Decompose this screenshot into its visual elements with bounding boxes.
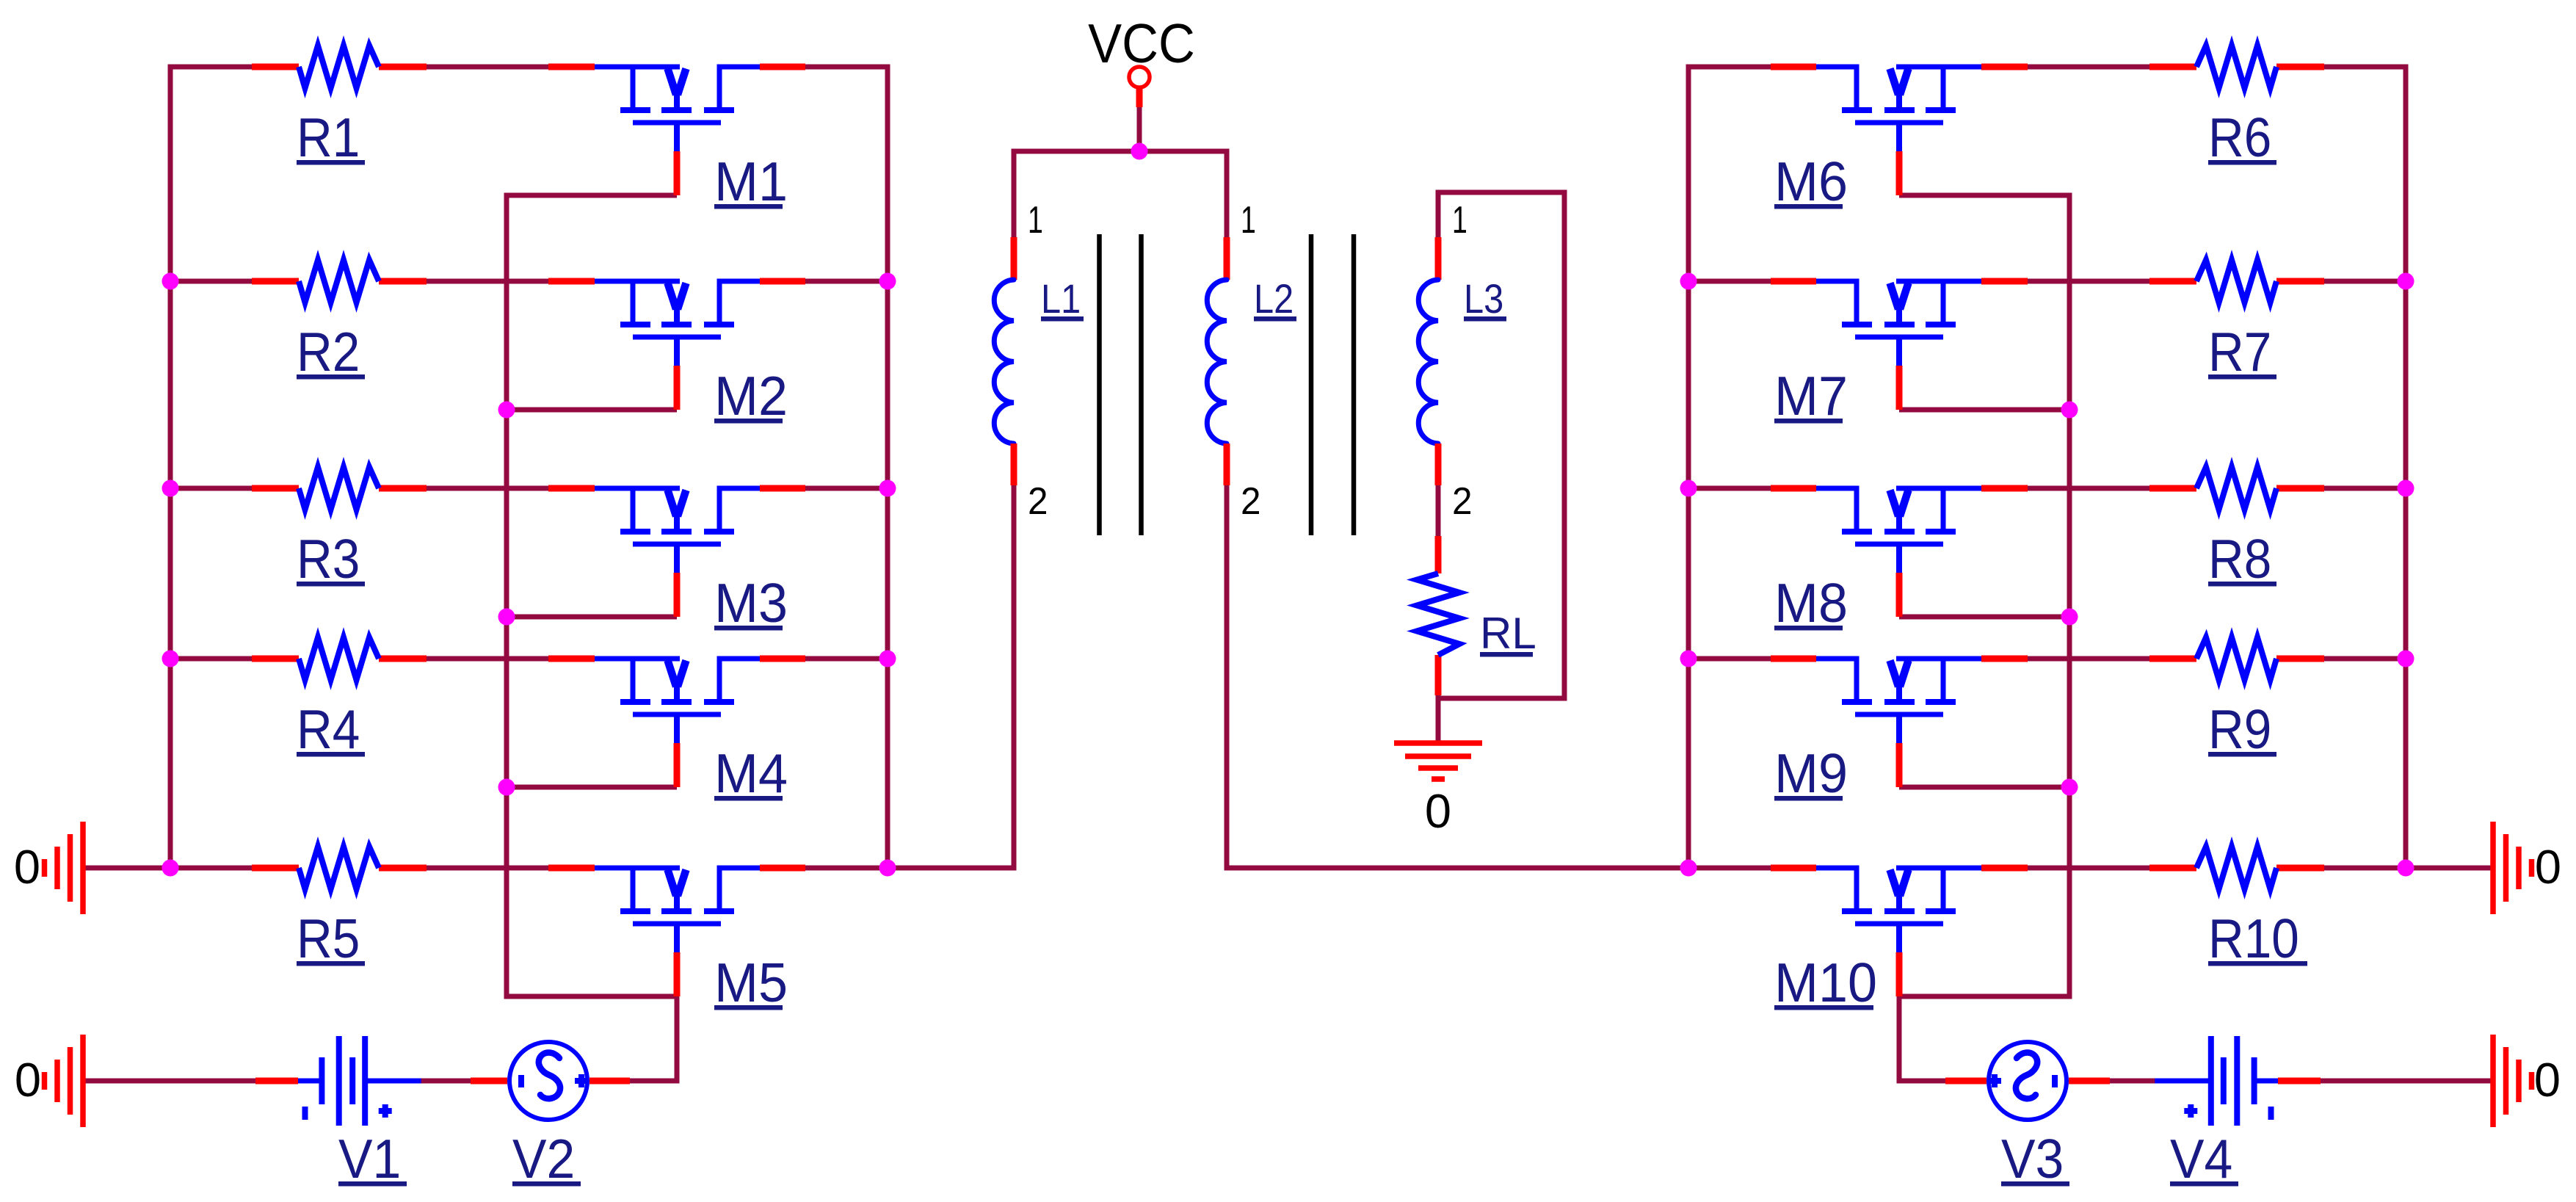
wire row2 left segments <box>168 279 890 284</box>
ground 0 label right row5 <box>2535 840 2561 894</box>
wire left ground to V1 <box>83 1079 255 1084</box>
junction (1209,897) <box>879 651 896 667</box>
junction (3277,897) <box>2398 651 2414 667</box>
svg-text:M3: M3 <box>714 572 788 634</box>
resistor R5 <box>252 847 427 889</box>
label V2 <box>512 1128 581 1190</box>
label L3 <box>1464 275 1506 322</box>
svg-text:0: 0 <box>2535 840 2561 894</box>
pin number 2 at x=1959 <box>1452 480 1473 523</box>
wire row5 right segments <box>1686 866 2409 871</box>
pin number 2 at x=1381 <box>1028 480 1048 523</box>
ground 0 label left row5 <box>14 840 40 894</box>
source V2 sine <box>471 1042 630 1120</box>
pin number 1 at x=1381 <box>1028 199 1043 242</box>
svg-text:1: 1 <box>1241 199 1256 242</box>
wire V2 riser to gate bus <box>630 996 677 1084</box>
ground 0 left row5 <box>45 822 84 914</box>
svg-text:R2: R2 <box>297 321 360 383</box>
junction (690,1072) <box>498 779 515 796</box>
label L1 <box>1041 275 1084 322</box>
node label VCC <box>1088 12 1195 74</box>
svg-text:2: 2 <box>1241 480 1261 523</box>
wire left ground to bus (row5) <box>83 866 170 871</box>
junction (3277,1182) <box>2398 860 2414 877</box>
label R5 <box>297 908 365 969</box>
ground 0 left Vrow <box>45 1035 84 1127</box>
source V4 battery <box>2155 1036 2321 1126</box>
svg-text:M7: M7 <box>1774 365 1848 427</box>
wire row4 left segments <box>168 656 890 662</box>
wire row3 left segments <box>168 486 890 491</box>
label R7 <box>2208 321 2276 383</box>
label R9 <box>2208 698 2276 760</box>
wire gate M6 <box>1899 193 2072 198</box>
wire gate M8 <box>1899 615 2072 620</box>
transformer core L1-L2 <box>1100 234 1142 535</box>
label R3 <box>297 528 365 590</box>
junction (3277,383) <box>2398 273 2414 290</box>
junction (1209,1182) <box>879 860 896 877</box>
transistor M6 <box>1771 67 2028 195</box>
wire L3 RL loop <box>1436 190 1565 699</box>
wire left gate bus <box>504 193 509 999</box>
wire L2 bottom to right output <box>1227 485 1691 868</box>
transformer core L2-L3 <box>1311 234 1354 535</box>
wire V1 to V2 <box>421 1079 471 1084</box>
transistor M10 <box>1771 868 2028 996</box>
svg-text:M5: M5 <box>714 952 788 1013</box>
junction (2819,1072) <box>2061 779 2078 796</box>
pin number 1 at x=1959 <box>1452 199 1467 242</box>
wire L1 bottom to output <box>885 485 1015 868</box>
wire L3 to RL <box>1436 485 1441 536</box>
label R10 <box>2208 908 2307 969</box>
transistor M3 <box>548 488 805 617</box>
wire V3 riser to gate junction <box>1899 996 1945 1084</box>
wire V4 to right ground <box>2321 1079 2491 1084</box>
wire V3 to V4 <box>2110 1079 2159 1084</box>
wire row5 left segments <box>168 866 890 871</box>
transistor M7 <box>1771 281 2028 410</box>
svg-text:V4: V4 <box>2170 1128 2232 1190</box>
ground 0 label below RL <box>1425 784 1451 838</box>
junction (232,897) <box>162 651 179 667</box>
wire VCC rail to L1 L2 <box>1014 151 1227 242</box>
ground 0 right Vrow <box>2493 1035 2532 1127</box>
svg-text:R7: R7 <box>2208 321 2271 383</box>
label M6 <box>1774 151 1848 212</box>
label M10 <box>1774 952 1877 1013</box>
svg-text:L2: L2 <box>1254 275 1294 322</box>
transistor M4 <box>548 659 805 787</box>
svg-text:0: 0 <box>2534 1053 2561 1107</box>
wire gate M1 <box>504 193 678 198</box>
wire row2 right segments <box>1686 279 2409 284</box>
label M5 <box>714 952 788 1013</box>
svg-text:0: 0 <box>14 840 40 894</box>
junction (1552,206) <box>1131 143 1148 160</box>
junction (2300,1182) <box>1680 860 1697 877</box>
junction (1209,383) <box>879 273 896 290</box>
wire row1 right segments <box>1686 65 2409 70</box>
wire gate M2 <box>504 408 678 413</box>
label V3 <box>2001 1128 2069 1190</box>
label R8 <box>2208 528 2276 590</box>
wire left output bus <box>885 65 890 871</box>
svg-text:V2: V2 <box>512 1128 575 1190</box>
wire row3 right segments <box>1686 486 2409 491</box>
ground 0 label left Vrow <box>15 1053 41 1107</box>
svg-text:0: 0 <box>15 1053 41 1107</box>
ground 0 below RL <box>1394 743 1482 779</box>
label R1 <box>297 106 365 168</box>
resistor R6 <box>2149 46 2324 88</box>
wire gate M10 <box>1899 994 2072 999</box>
junction (232,1182) <box>162 860 179 877</box>
resistor R9 <box>2149 637 2324 680</box>
resistor R1 <box>252 46 427 88</box>
svg-text:R10: R10 <box>2208 908 2299 969</box>
label M9 <box>1774 742 1848 804</box>
svg-text:L3: L3 <box>1464 275 1503 322</box>
svg-text:R4: R4 <box>297 698 360 760</box>
label L2 <box>1254 275 1296 322</box>
resistor R8 <box>2149 467 2324 510</box>
svg-text:M10: M10 <box>1774 952 1877 1013</box>
wire gate M9 <box>1899 785 2072 790</box>
transistor M9 <box>1771 659 2028 787</box>
label M3 <box>714 572 788 634</box>
svg-text:R6: R6 <box>2208 106 2271 168</box>
wire gate M5 <box>504 994 678 999</box>
svg-text:0: 0 <box>1425 784 1451 838</box>
transistor M8 <box>1771 488 2028 617</box>
junction (2300,383) <box>1680 273 1697 290</box>
junction (2819,558) <box>2061 402 2078 419</box>
ground 0 label right Vrow <box>2534 1053 2561 1107</box>
svg-text:M6: M6 <box>1774 151 1848 212</box>
resistor R10 <box>2149 847 2324 889</box>
label M1 <box>714 151 788 212</box>
resistor RL <box>1417 536 1459 695</box>
pin number 2 at x=1671 <box>1241 480 1261 523</box>
label V4 <box>2170 1128 2238 1190</box>
svg-text:M9: M9 <box>1774 742 1848 804</box>
svg-text:R5: R5 <box>297 908 360 969</box>
label M2 <box>714 365 788 427</box>
wire left resistor bus <box>168 65 173 871</box>
svg-text:R3: R3 <box>297 528 360 590</box>
resistor R2 <box>252 260 427 303</box>
wire right output bus <box>1686 65 1691 871</box>
inductor L1 <box>994 237 1014 485</box>
wire right gate bus <box>2067 193 2072 999</box>
power symbol VCC <box>1129 67 1150 107</box>
svg-text:V3: V3 <box>2001 1128 2064 1190</box>
transistor M2 <box>548 281 805 410</box>
svg-text:R9: R9 <box>2208 698 2271 760</box>
junction (2300,897) <box>1680 651 1697 667</box>
junction (690,558) <box>498 402 515 419</box>
junction (2300,665) <box>1680 480 1697 497</box>
svg-text:2: 2 <box>1452 480 1473 523</box>
svg-text:VCC: VCC <box>1088 12 1195 74</box>
label V1 <box>338 1128 407 1190</box>
svg-text:M4: M4 <box>714 742 788 804</box>
junction (690,840) <box>498 609 515 626</box>
svg-text:RL: RL <box>1480 609 1536 658</box>
label M8 <box>1774 572 1848 634</box>
junction (1209,665) <box>879 480 896 497</box>
label R2 <box>297 321 365 383</box>
wire gate M7 <box>1899 408 2072 413</box>
wire row1 left segments <box>168 65 890 70</box>
ground 0 right row5 <box>2493 822 2532 914</box>
source V3 sine <box>1945 1042 2110 1120</box>
inductor L2 <box>1207 237 1227 485</box>
svg-text:V1: V1 <box>338 1128 401 1190</box>
label R4 <box>297 698 365 760</box>
wire VCC stem <box>1137 107 1142 151</box>
transistor M1 <box>548 67 805 195</box>
wire row4 right segments <box>1686 656 2409 662</box>
svg-text:2: 2 <box>1028 480 1048 523</box>
wire RL to ground <box>1436 695 1441 743</box>
label RL <box>1480 609 1536 658</box>
svg-text:M8: M8 <box>1774 572 1848 634</box>
inductor L3 <box>1418 237 1438 485</box>
label M7 <box>1774 365 1848 427</box>
resistor R7 <box>2149 260 2324 303</box>
svg-text:M1: M1 <box>714 151 788 212</box>
label R6 <box>2208 106 2276 168</box>
pin number 1 at x=1671 <box>1241 199 1256 242</box>
resistor R3 <box>252 467 427 510</box>
wire right bus to ground (row5) <box>2406 866 2491 871</box>
wire gate M4 <box>504 785 678 790</box>
label M4 <box>714 742 788 804</box>
svg-text:L1: L1 <box>1041 275 1081 322</box>
svg-text:1: 1 <box>1028 199 1043 242</box>
junction (3277,665) <box>2398 480 2414 497</box>
junction (232,665) <box>162 480 179 497</box>
wire right resistor bus <box>2403 65 2409 871</box>
source V1 battery <box>255 1036 421 1126</box>
svg-text:R1: R1 <box>297 106 360 168</box>
svg-text:R8: R8 <box>2208 528 2271 590</box>
svg-text:1: 1 <box>1452 199 1467 242</box>
wire gate M3 <box>504 615 678 620</box>
junction (2819,840) <box>2061 609 2078 626</box>
svg-text:M2: M2 <box>714 365 788 427</box>
transistor M5 <box>548 868 805 996</box>
resistor R4 <box>252 637 427 680</box>
junction (232,383) <box>162 273 179 290</box>
